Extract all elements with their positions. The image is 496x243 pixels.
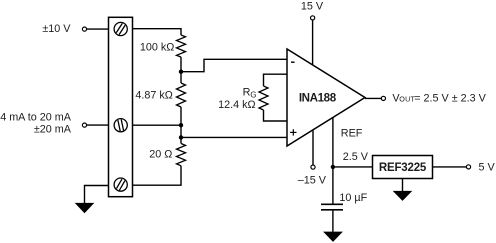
- wire R3 bottom to terminal block row3: [133, 166, 182, 185]
- svg-text:OUT: OUT: [399, 95, 415, 104]
- screw terminal 3: [114, 178, 127, 191]
- ground symbol G1: [75, 203, 95, 213]
- svg-text:4.87 kΩ: 4.87 kΩ: [135, 89, 172, 101]
- node D junction dot: [331, 165, 335, 169]
- svg-text:–15 V: –15 V: [298, 175, 327, 187]
- svg-text:20 Ω: 20 Ω: [149, 148, 172, 160]
- wire R2 bottom to node B: [180, 107, 182, 144]
- svg-text:10 µF: 10 µF: [339, 192, 367, 204]
- wire node A to R2: [180, 72, 182, 83]
- wire op-amp REF pin down to node D: [332, 117, 334, 203]
- screw terminal 2: [114, 119, 127, 132]
- svg-text:12.4 kΩ: 12.4 kΩ: [218, 99, 255, 111]
- svg-text:5 V: 5 V: [479, 162, 496, 174]
- wire op-amp RG pin to RG top: [264, 74, 288, 86]
- node C junction dot: [179, 135, 183, 139]
- wire terminal block row2 to node B: [133, 124, 182, 126]
- ground symbol G3: [323, 232, 343, 242]
- screw terminal 1: [114, 22, 127, 35]
- svg-text:±20 mA: ±20 mA: [34, 124, 72, 136]
- svg-text:4 mA to 20 mA: 4 mA to 20 mA: [0, 111, 72, 123]
- wire terminal block row1 to R1: [133, 29, 182, 35]
- wire node D to REF3225: [333, 166, 373, 168]
- terminal block J1: [109, 17, 133, 196]
- op-amp minus pin mark: [291, 61, 295, 63]
- svg-text:15 V: 15 V: [301, 0, 324, 12]
- svg-text:REF: REF: [341, 128, 363, 140]
- resistor RG 12.4 kOhm: [259, 86, 268, 110]
- terminal VOUT circle: [381, 96, 385, 100]
- wire terminal block row3 to ground: [85, 186, 109, 204]
- wire T2 to terminal block: [87, 124, 109, 126]
- op-amp U1 INA188 triangle: [287, 49, 365, 146]
- resistor R2 4.87 kOhm: [177, 83, 186, 107]
- resistor R3 20 Ohm: [177, 144, 186, 166]
- node A junction dot: [179, 70, 183, 74]
- wire op-amp V- to -15V terminal: [312, 130, 314, 165]
- svg-text:2.5 V: 2.5 V: [343, 151, 369, 163]
- terminal T1 input circle: [82, 27, 86, 31]
- terminal 5V circle: [466, 165, 470, 169]
- wire node A to op-amp minus input: [181, 59, 287, 71]
- terminal -15V circle: [311, 165, 315, 169]
- svg-text:100 kΩ: 100 kΩ: [140, 41, 174, 53]
- svg-text:= 2.5 V ± 2.3 V: = 2.5 V ± 2.3 V: [414, 93, 486, 105]
- svg-text:±10 V: ±10 V: [42, 23, 71, 35]
- op-amp plus pin mark: [290, 129, 296, 135]
- node B junction dot: [179, 123, 183, 127]
- wire RG bottom to op-amp RG pin: [264, 110, 288, 121]
- resistor R1 100 kOhm: [177, 35, 186, 57]
- wire C1 to ground: [332, 211, 334, 232]
- wire REF3225 output to 5V terminal: [433, 166, 467, 168]
- terminal T2 input circle: [82, 123, 86, 127]
- wire 15V supply to op-amp V+: [312, 20, 314, 65]
- capacitor C1 10 uF: [321, 204, 343, 210]
- wire R1 bottom to node A: [180, 57, 182, 72]
- wire op-amp output: [365, 97, 381, 99]
- svg-text:REF3225: REF3225: [379, 162, 427, 174]
- wire REF3225 to ground: [402, 179, 404, 192]
- ground symbol G2: [393, 191, 413, 201]
- wire node C to op-amp plus input: [181, 136, 287, 138]
- terminal 15V circle: [311, 16, 315, 20]
- voltage reference U2 REF3225 box: [373, 156, 433, 179]
- wire T1 to terminal block: [87, 28, 109, 30]
- svg-text:INA188: INA188: [299, 91, 337, 104]
